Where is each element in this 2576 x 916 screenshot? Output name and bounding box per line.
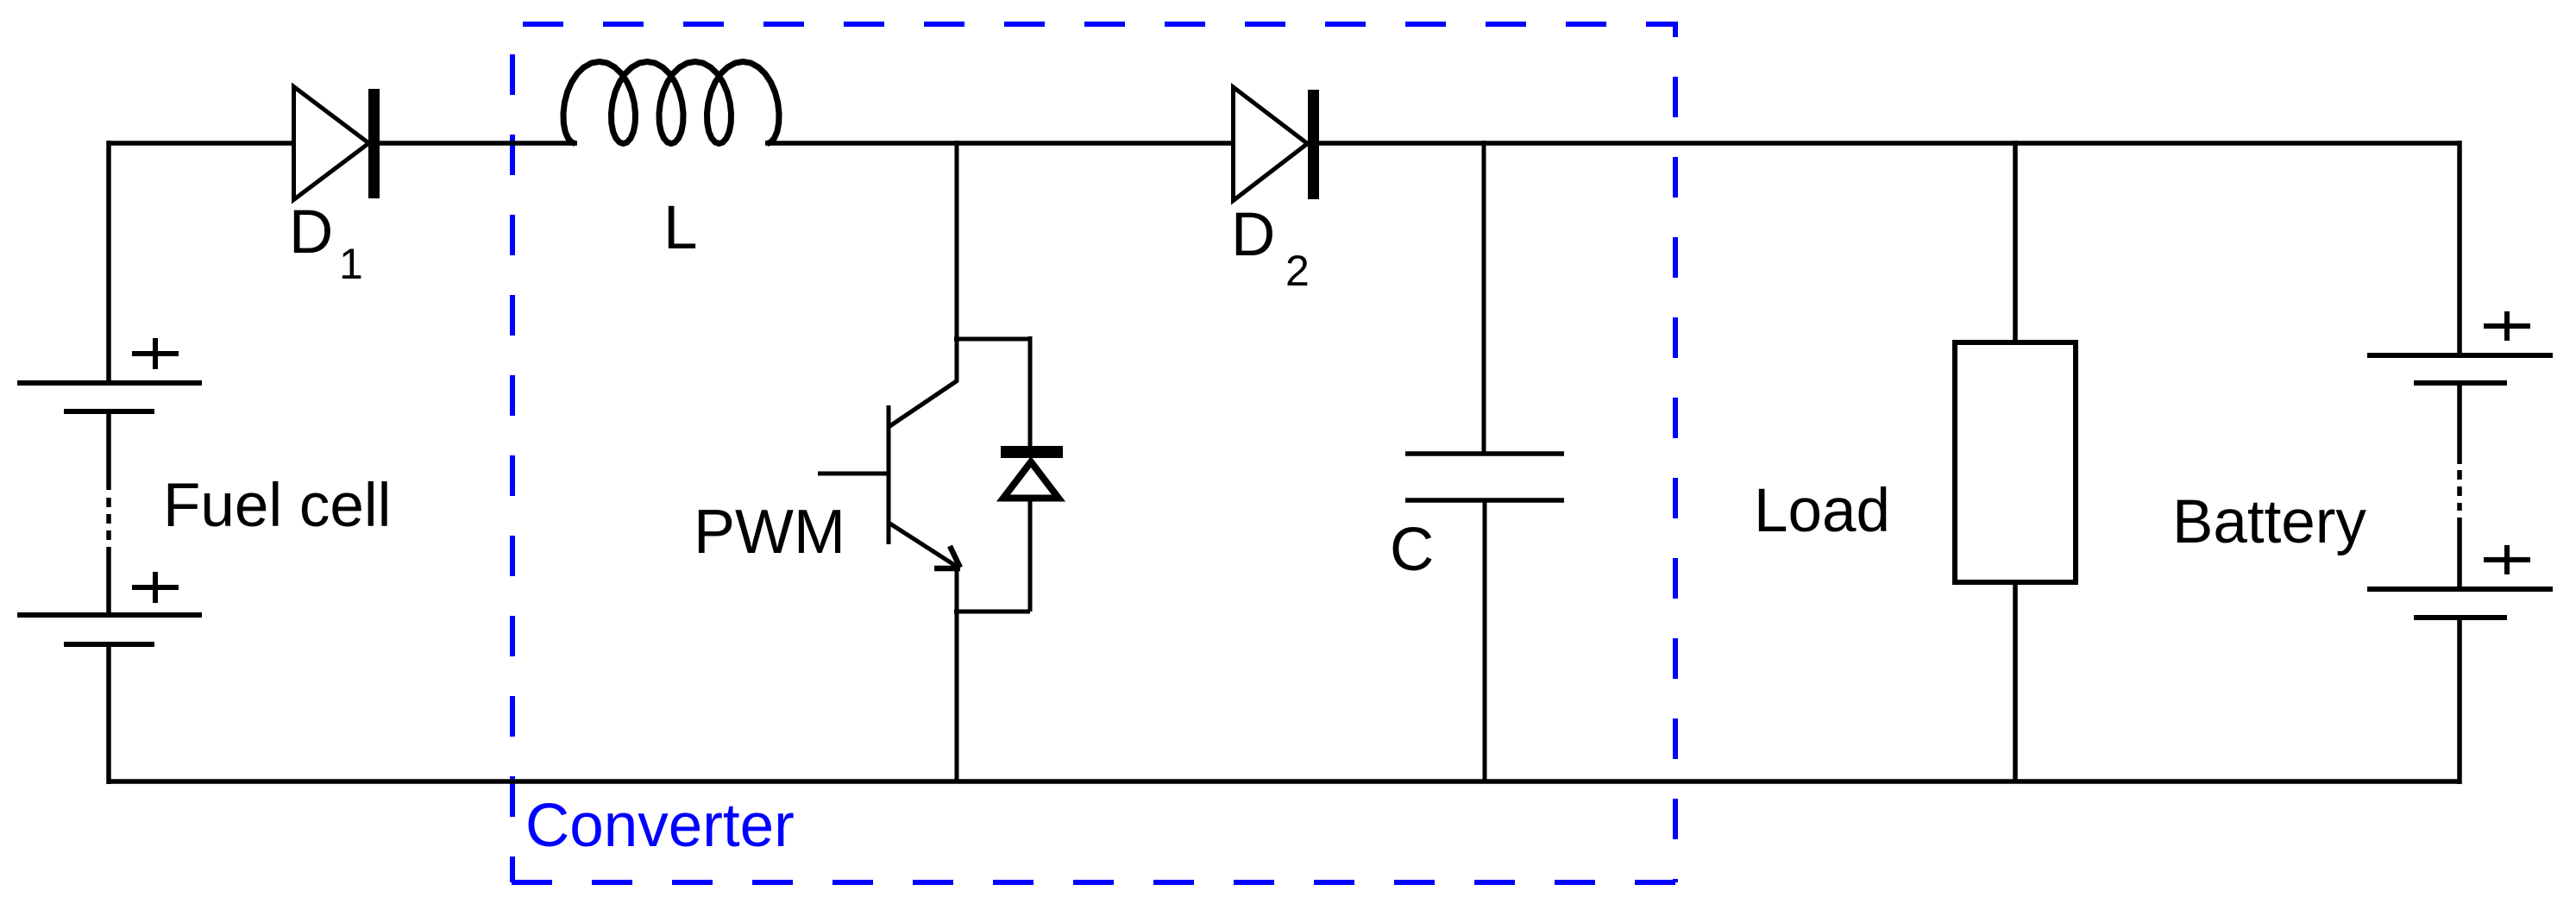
battery FC cell2 positive plate <box>17 612 202 618</box>
wire battery top lead <box>2457 141 2462 355</box>
svg-text:1: 1 <box>339 240 363 288</box>
battery BT cell1 positive plate <box>2367 353 2553 358</box>
wire fuel-cell bottom lead <box>106 644 111 784</box>
wire fuel-cell mid lead upper <box>106 411 111 490</box>
svg-text:Battery: Battery <box>2172 488 2366 556</box>
plus sign BT cell1 <box>2484 311 2530 341</box>
wire battery bottom lead <box>2457 618 2462 784</box>
wire capacitor top lead <box>1482 141 1486 454</box>
battery BT cell2 negative plate <box>2414 615 2507 620</box>
transistor Q1 body bar <box>887 405 891 544</box>
plus sign FC cell1 <box>132 338 179 369</box>
capacitor C top plate <box>1405 451 1564 456</box>
node collector junction vertical <box>955 141 959 382</box>
wire antiparallel diode lower lead <box>1028 499 1033 612</box>
svg-text:C: C <box>1390 516 1434 584</box>
svg-text:Converter: Converter <box>525 792 795 860</box>
svg-text:PWM: PWM <box>694 498 845 567</box>
svg-text:Load: Load <box>1754 477 1890 545</box>
battery BT cell1 negative plate <box>2414 380 2507 386</box>
converter dashed box top edge <box>512 22 1678 27</box>
plus sign FC cell2 <box>132 572 179 603</box>
plus sign BT cell2 <box>2484 545 2530 574</box>
transistor Q1 emitter diagonal <box>889 523 958 568</box>
svg-text:L: L <box>663 194 698 262</box>
wire battery mid lead lower <box>2457 518 2462 589</box>
wire fuel-cell omitted-cells dash-dot <box>106 498 111 542</box>
resistor Load box <box>1955 342 2076 582</box>
svg-text:D: D <box>289 198 333 267</box>
wire emitter to diode branch <box>954 610 1030 614</box>
battery FC cell2 negative plate <box>64 642 154 647</box>
transistor Q1 gate lead <box>818 472 889 476</box>
svg-text:2: 2 <box>1285 247 1310 295</box>
wire load bottom lead <box>2013 582 2018 781</box>
transistor Q1 collector diagonal <box>889 380 958 427</box>
svg-text:D: D <box>1231 201 1275 269</box>
wire load top lead <box>2013 141 2018 342</box>
transistor Q1 emitter arrowhead <box>934 546 960 568</box>
wire battery mid lead upper <box>2457 383 2462 464</box>
wire top bus right of inductor <box>765 141 2460 146</box>
wire capacitor bottom lead <box>1483 500 1487 781</box>
battery BT cell2 positive plate <box>2367 587 2553 592</box>
diode D1 triangle <box>294 87 369 200</box>
wire top bus left of inductor <box>109 141 577 146</box>
inductor L coil <box>563 62 779 144</box>
diode DQ cathode bar <box>1001 446 1063 458</box>
wire fuel-cell mid lead lower <box>106 547 111 615</box>
diode DQ triangle <box>1003 462 1059 499</box>
svg-text:Fuel cell: Fuel cell <box>163 472 391 540</box>
wire bottom bus <box>109 779 2460 784</box>
converter dashed box right edge <box>1673 24 1678 882</box>
wire collector to diode branch <box>954 337 1030 342</box>
converter dashed box left edge <box>510 24 515 882</box>
battery FC cell1 negative plate <box>64 409 154 414</box>
wire emitter to bottom bus <box>955 568 959 781</box>
battery FC cell1 positive plate <box>17 380 202 386</box>
wire left fuel-cell top lead <box>106 141 111 383</box>
capacitor C bottom plate <box>1405 498 1564 503</box>
diode D2 triangle <box>1234 87 1308 201</box>
wire battery omitted-cells dash-dot <box>2457 470 2462 511</box>
wire antiparallel diode upper lead <box>1028 336 1033 448</box>
converter dashed box bottom edge <box>512 880 1678 885</box>
diode D2 cathode bar <box>1308 90 1319 199</box>
diode D1 cathode bar <box>368 89 380 198</box>
